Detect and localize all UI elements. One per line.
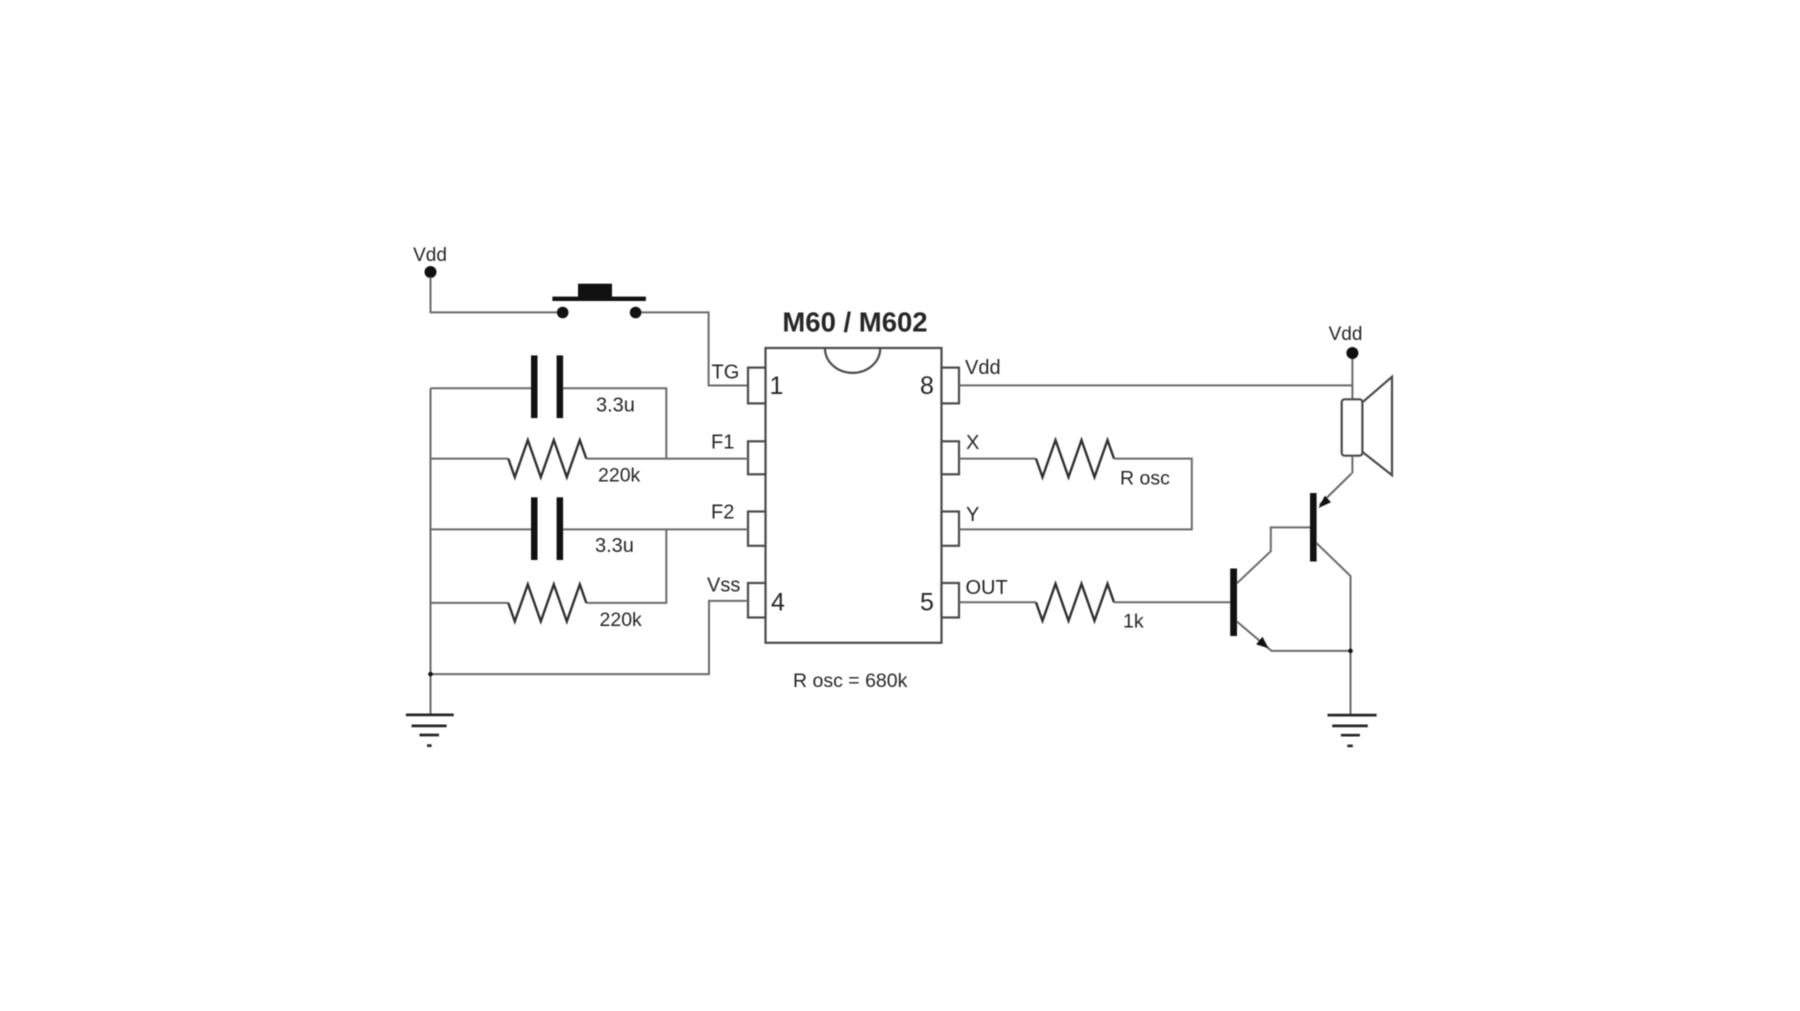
svg-text:3.3u: 3.3u [596,395,635,417]
svg-text:Vss: Vss [707,575,740,597]
wire bus to resistor R1 [431,458,509,460]
ground (right) [1328,715,1377,746]
power symbol Vdd (right) [1329,324,1363,359]
wire left bus vertical [430,388,432,715]
svg-text:OUT: OUT [966,577,1008,599]
svg-text:3.3u: 3.3u [595,535,634,557]
pin Y [942,512,960,546]
wire R osc to pin Y [959,459,1192,530]
power symbol Vdd (top left) [413,245,447,278]
wire Vss pin to bus [431,601,749,674]
wire Vdd to speaker [1351,359,1353,399]
svg-text:Vdd: Vdd [413,245,447,266]
svg-text:1: 1 [770,372,784,400]
pin 5 (OUT) [942,583,960,618]
transistor Q1 [1230,527,1350,651]
svg-text:F1: F1 [711,432,734,454]
IC U1 body M60/M602 [766,348,942,643]
junction node at bus [428,672,433,677]
svg-text:TG: TG [712,362,740,384]
pin F2 [748,512,766,546]
wire C1 to F1 line [563,388,666,458]
wire pin 8 Vdd to speaker branch [959,384,1352,386]
resistor R osc [1036,440,1114,477]
pin 4 (Vss) [748,583,766,618]
pin X [942,441,960,474]
pin 8 (Vdd) [942,368,960,404]
svg-text:8: 8 [920,372,934,400]
resistor R3 1k [1036,584,1114,621]
svg-text:Vdd: Vdd [1329,324,1363,345]
pin 1 (TG) [748,368,766,404]
svg-text:M60 / M602: M60 / M602 [782,307,927,338]
svg-text:X: X [966,432,979,454]
svg-text:R osc: R osc [1120,468,1170,490]
wire R3 to Q1 base [1114,601,1230,603]
IC notch [825,348,880,373]
svg-text:4: 4 [771,589,785,617]
wire bus to resistor R2 [431,602,509,604]
svg-text:220k: 220k [598,465,641,487]
wire C2 to pin F2 [563,528,748,530]
svg-text:Vdd: Vdd [965,357,1001,379]
capacitor C1 [531,355,563,418]
svg-text:1k: 1k [1123,611,1144,633]
svg-text:F2: F2 [711,502,734,524]
wire junction F2 line down to R2 [586,529,666,603]
wire pin 5 OUT to R3 [959,601,1036,603]
resistor R2 220k [508,584,586,621]
wire bus to capacitor C2 [431,528,532,530]
svg-text:R osc = 680k: R osc = 680k [793,670,908,692]
pin F1 [748,441,766,474]
wire R1 to pin F1 [586,458,748,460]
wire pin X to R osc [959,458,1036,460]
junction node emitter/collector [1348,649,1353,654]
svg-text:Y: Y [966,504,979,526]
svg-text:220k: 220k [600,609,643,631]
resistor R1 220k [508,440,586,477]
pushbutton switch S1 [552,284,646,319]
wire from Vdd to switch left terminal [431,277,558,312]
wire bus to capacitor C1 [431,387,532,389]
capacitor C2 [531,497,563,560]
svg-text:5: 5 [920,589,934,617]
wire speaker to Q2 emitter [1351,456,1353,474]
speaker SP1 [1342,377,1392,475]
ground (left) [406,715,454,746]
transistor Q2 [1310,474,1352,715]
wire from switch right terminal to TG pin 1 [641,312,747,385]
